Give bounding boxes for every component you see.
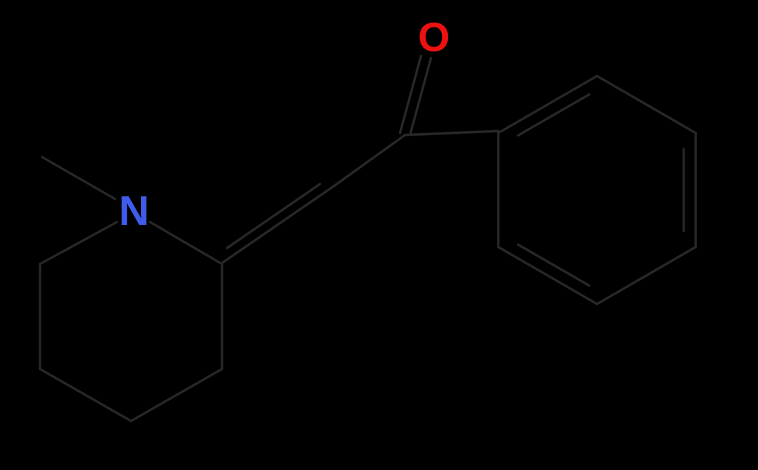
svg-text:N: N (119, 187, 149, 234)
svg-text:O: O (418, 14, 450, 60)
